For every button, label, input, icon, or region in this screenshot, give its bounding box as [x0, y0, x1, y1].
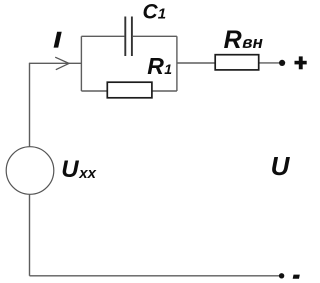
svg-text:хх: хх	[78, 165, 96, 182]
svg-text:C: C	[143, 1, 159, 24]
svg-text:1: 1	[164, 61, 172, 77]
svg-text:вн: вн	[242, 33, 263, 52]
svg-text:R: R	[147, 53, 164, 79]
svg-text:U: U	[61, 156, 79, 183]
svg-text:1: 1	[158, 6, 166, 23]
svg-text:R: R	[224, 26, 242, 54]
svg-text:U: U	[271, 151, 291, 181]
